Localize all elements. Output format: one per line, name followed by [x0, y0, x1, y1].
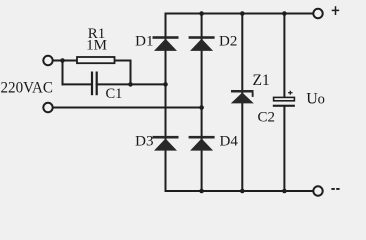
svg-text:Z1: Z1: [253, 72, 270, 89]
capacitor C2: [274, 97, 295, 100]
junction top D2 column: [199, 11, 204, 16]
junction top Z1 column: [240, 11, 245, 16]
wire Z1 column: [241, 14, 243, 192]
junction top C2 column: [282, 11, 287, 16]
svg-text:C1: C1: [106, 86, 123, 102]
junction R1-C1 right: [128, 82, 133, 87]
diode D1: [153, 36, 179, 51]
wire left bridge column: [165, 14, 167, 192]
junction bottom Z1 column: [240, 189, 245, 194]
svg-text:o: o: [318, 91, 325, 107]
wire bottom rail: [166, 190, 313, 192]
svg-text:D2: D2: [219, 33, 237, 49]
wire C1 left lead: [63, 83, 92, 85]
label plus: [332, 6, 340, 15]
capacitor C1: [92, 72, 97, 96]
junction node A: [60, 58, 65, 63]
svg-text:D4: D4: [220, 133, 239, 149]
label minus minus: [331, 188, 334, 190]
wire node A down to C1 level: [62, 61, 64, 85]
junction bottom D2 column: [199, 189, 204, 194]
terminal input top: [43, 56, 52, 65]
diode D3: [153, 136, 179, 151]
svg-text:D3: D3: [135, 133, 153, 149]
terminal output plus: [313, 9, 322, 18]
wire R1 right to corner and down: [115, 61, 131, 85]
svg-text:C2: C2: [258, 110, 276, 126]
diode D4: [189, 136, 215, 151]
svg-text:D1: D1: [135, 34, 153, 50]
svg-text:1M: 1M: [86, 38, 107, 54]
wire terminal1 to node A: [54, 60, 63, 62]
diode D2: [189, 36, 215, 51]
terminal output minus: [313, 186, 322, 195]
svg-text:220VAC: 220VAC: [1, 80, 54, 97]
wire C1 right lead to bridge: [97, 83, 166, 85]
wire right bridge column: [201, 14, 203, 192]
svg-text:U: U: [306, 90, 318, 107]
wire terminal2 to bridge right column: [54, 107, 202, 109]
wire top rail: [166, 13, 313, 15]
wire C2 column top: [283, 14, 285, 98]
resistor R1: [77, 57, 115, 63]
zener Z1: [231, 90, 254, 103]
junction bridge left mid: [163, 82, 168, 87]
C2 plus mark: [288, 91, 292, 95]
terminal input bottom: [43, 103, 52, 112]
wire node A to R1 left: [63, 60, 78, 62]
junction bridge right mid: [199, 105, 204, 110]
junction bottom C2 column: [282, 189, 287, 194]
wire C2 column bottom: [283, 107, 285, 192]
